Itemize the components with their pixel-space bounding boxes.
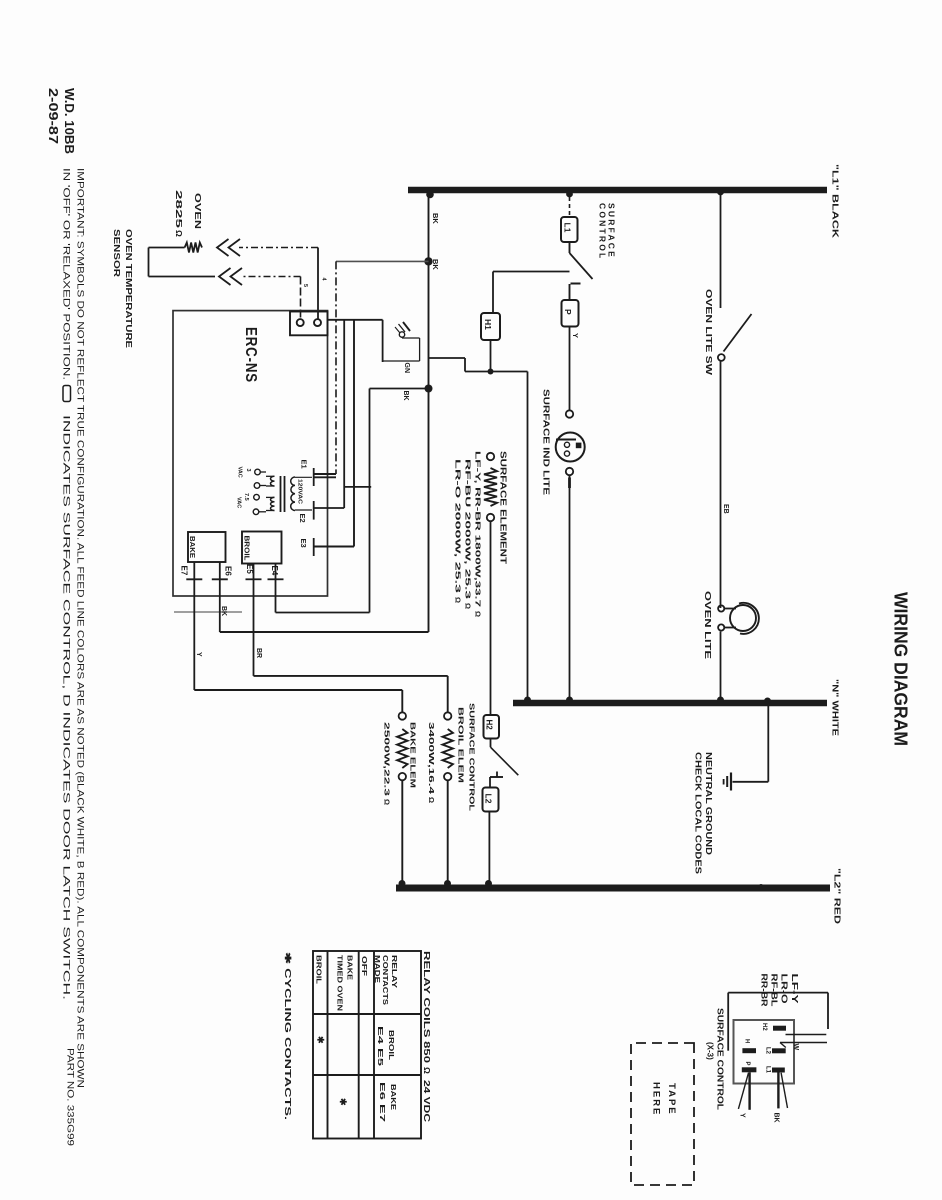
svg-text:5: 5: [302, 284, 308, 287]
svg-text:Y: Y: [739, 1113, 746, 1118]
svg-text:P: P: [744, 1062, 750, 1066]
wire BK staircase to E4 (drop): [276, 612, 370, 614]
wire element to H2: [490, 521, 492, 715]
svg-text:SURFACE CONTROL: SURFACE CONTROL: [468, 703, 477, 812]
wire E6 (BK) to BK drop: [219, 562, 221, 632]
contact box P (pilot): [562, 300, 579, 327]
svg-text:VAC: VAC: [236, 497, 242, 508]
svg-text:BROIL ELEM: BROIL ELEM: [457, 707, 466, 783]
wire E2 long wire: [343, 320, 345, 508]
wire junction riser: [465, 371, 528, 373]
wire riser to broil element: [447, 676, 449, 713]
resistor BROIL ELEM: [444, 712, 451, 719]
wire E7 (Y) to bake riser: [193, 562, 195, 690]
svg-text:2500W,22.3: 2500W,22.3: [383, 722, 392, 796]
transformer secondary coil 7.5VAC: [270, 497, 274, 510]
svg-text:VAC: VAC: [237, 467, 243, 478]
contact box H1: [481, 313, 500, 340]
svg-text:RF-BU 2000W, 25.3: RF-BU 2000W, 25.3: [464, 459, 473, 599]
svg-text:LR-O: LR-O: [780, 974, 790, 1005]
svg-text:Y: Y: [195, 652, 202, 657]
wire E4 to GN net: [275, 564, 277, 613]
svg-text:Ω: Ω: [464, 603, 473, 609]
svg-text:HERE: HERE: [651, 1082, 662, 1116]
svg-text:Ω: Ω: [474, 611, 483, 617]
svg-text:LF-Y, RR-BR 1800W,33.7: LF-Y, RR-BR 1800W,33.7: [474, 451, 483, 607]
lamp SURFACE IND LITE: [556, 433, 585, 462]
junction dot BK/E1 tap: [424, 257, 432, 265]
svg-text:(X-3): (X-3): [706, 1042, 715, 1060]
wire E2 riser to BK staircase: [344, 486, 371, 488]
junction dot below H1: [488, 369, 494, 375]
wire bake element to L2 rail: [401, 780, 403, 886]
wire BK from L1 rail: [428, 190, 430, 632]
svg-text:E4 E5: E4 E5: [376, 1026, 385, 1066]
resistor surface element: [487, 453, 494, 460]
wire L2 box to L2 rail: [488, 812, 490, 887]
svg-text:Ω: Ω: [454, 597, 463, 603]
table relay contacts outline: [313, 951, 421, 1139]
svg-text:"L2" RED: "L2" RED: [833, 868, 843, 924]
wire BK drop to E6 (broil relay): [220, 631, 429, 633]
svg-text:GN: GN: [403, 363, 410, 374]
svg-text:RF-BL: RF-BL: [769, 974, 779, 1007]
wire BK pair from L1 pin: [777, 1072, 779, 1108]
transformer core: [284, 476, 286, 512]
wire neutral ground tap: [767, 703, 769, 782]
terminal E5 tick: [246, 578, 262, 580]
svg-text:BK: BK: [431, 213, 440, 224]
svg-text:BK: BK: [220, 606, 227, 616]
svg-text:BK: BK: [773, 1113, 780, 1123]
wire H2 to switch pivot: [490, 739, 492, 748]
svg-text:"N" WHITE: "N" WHITE: [831, 679, 841, 736]
pin L2 (X-3): [772, 1048, 786, 1053]
wire L1 rail to oven lite switch: [720, 190, 722, 308]
connector sensor plug on ERC: [290, 312, 328, 336]
junction dot on L1 rail (oven lite branch): [717, 189, 724, 196]
wire dashed L1 rail to surface-control L1 contact: [569, 190, 571, 217]
svg-text:W.D. 10BB: W.D. 10BB: [62, 88, 76, 154]
svg-text:L1: L1: [765, 1066, 771, 1074]
wire N neutral rail (white): [513, 700, 827, 707]
sensor loop right leg: [149, 276, 216, 278]
svg-text:TIMED OVEN: TIMED OVEN: [336, 955, 345, 1011]
svg-text:H2: H2: [761, 1023, 767, 1031]
svg-text:RELAY COILS 850: RELAY COILS 850: [422, 951, 432, 1063]
svg-text:CHECK LOCAL CODES: CHECK LOCAL CODES: [694, 752, 704, 874]
module ERC-NS box: [173, 311, 328, 596]
svg-text:PART NO. 335G99: PART NO. 335G99: [65, 1048, 76, 1146]
wire L2 supply rail (red): [396, 885, 830, 892]
switch arm OVEN LITE SW (open): [724, 314, 752, 352]
svg-text:LF-Y: LF-Y: [790, 974, 800, 1005]
wire stub dark segment after lamp: [568, 478, 571, 489]
junction dot on L2 rail (broil): [444, 880, 451, 887]
svg-text:7.5: 7.5: [243, 493, 249, 501]
wire sensor right leg to ERC connector (dash-dot): [241, 276, 301, 278]
lamp OVEN LITE terminals: [718, 605, 724, 611]
wire switch to oven lite: [720, 361, 722, 608]
wire Y riser from E7: [194, 689, 402, 691]
svg-text:BAKE: BAKE: [188, 536, 195, 558]
svg-text:3400W,16.4: 3400W,16.4: [427, 722, 436, 795]
relay BAKE box: [188, 532, 226, 562]
junction dot on N rail (element return): [524, 697, 531, 704]
transformer secondary coil 3VAC: [270, 476, 274, 486]
switch contact tick: [571, 283, 581, 285]
transformer primary terminal E2: [313, 501, 315, 520]
svg-text:IMPORTANT: SYMBOLS DO NOT REFL: IMPORTANT: SYMBOLS DO NOT REFLECT TRUE C…: [75, 168, 86, 1088]
svg-text:E6: E6: [224, 566, 233, 576]
svg-text:E6 E7: E6 E7: [378, 1082, 387, 1122]
svg-text:SENSOR: SENSOR: [112, 229, 122, 277]
wire E3 to connector riser: [353, 320, 355, 547]
svg-text:BROIL: BROIL: [387, 1030, 396, 1061]
svg-text:BROIL: BROIL: [315, 955, 324, 985]
svg-text:✱: ✱: [316, 1036, 326, 1044]
svg-text:LR-O 2000W, 25.3: LR-O 2000W, 25.3: [454, 459, 463, 593]
svg-text:CONTROL: CONTROL: [598, 203, 608, 260]
contact box H2: [484, 715, 500, 739]
svg-text:BAKE: BAKE: [346, 955, 355, 980]
svg-text:OFF: OFF: [360, 956, 369, 977]
svg-text:Ω: Ω: [427, 797, 436, 803]
wire Y pair from P pin: [748, 1072, 750, 1110]
svg-text:EB: EB: [722, 504, 729, 514]
wire loop around X-3: [728, 992, 828, 994]
switch contact hook at L2: [490, 776, 503, 778]
svg-text:RR-BR: RR-BR: [759, 974, 769, 1007]
terminal E7 tick: [186, 578, 202, 580]
resistor oven temperature sensor (in loop left leg): [149, 247, 185, 249]
pin L1 (X-3): [772, 1068, 785, 1073]
terminal circle (ind lite right): [566, 468, 573, 475]
ground symbol (chassis) with circle: [403, 322, 410, 331]
svg-text:TAPE: TAPE: [666, 1083, 677, 1116]
transformer primary terminal E1: [313, 468, 315, 486]
svg-text:Ω: Ω: [383, 799, 392, 805]
svg-text:Y: Y: [571, 333, 580, 338]
wire BR riser from E5: [254, 675, 448, 677]
pin P (X-3): [742, 1067, 757, 1072]
svg-text:BR: BR: [255, 648, 262, 658]
svg-text:SURFACE IND LITE: SURFACE IND LITE: [542, 389, 551, 496]
wire E5 (BR) to broil riser: [253, 564, 255, 676]
connector SURFACE CONTROL X-3 box: [734, 1020, 795, 1084]
wire BK staircase to E4 (horizontal): [369, 389, 371, 613]
svg-text:P: P: [563, 309, 573, 315]
svg-text:WIRING DIAGRAM: WIRING DIAGRAM: [891, 592, 911, 746]
svg-text:2825: 2825: [174, 190, 184, 229]
svg-text:H2: H2: [485, 720, 494, 731]
svg-text:E4: E4: [270, 566, 279, 576]
symbol surface-control box glyph in note: [63, 386, 71, 402]
pin H: [742, 1048, 756, 1053]
svg-text:NEUTRAL GROUND: NEUTRAL GROUND: [704, 752, 714, 855]
relay BROIL box: [242, 532, 282, 564]
switch contact circle: [718, 354, 725, 361]
junction dot on N rail (ind lite): [566, 697, 573, 704]
wire drop surface control to H1: [493, 271, 570, 273]
svg-text:"L1" BLACK: "L1" BLACK: [831, 164, 841, 239]
terminal circle (ind lite left): [566, 410, 573, 417]
svg-text:OVEN LITE SW: OVEN LITE SW: [704, 289, 713, 376]
svg-text:2-09-87: 2-09-87: [46, 88, 60, 144]
svg-text:RELAY: RELAY: [390, 955, 399, 988]
svg-text:3: 3: [245, 469, 251, 472]
svg-text:✱: ✱: [338, 1098, 348, 1106]
wire riser to bake element: [401, 690, 403, 713]
svg-text:W: W: [792, 1044, 799, 1051]
junction dot on L1 rail (BK feed): [426, 191, 434, 199]
svg-text:SURFACE CONTROL: SURFACE CONTROL: [716, 1008, 725, 1110]
svg-text:ERC-NS: ERC-NS: [242, 327, 259, 383]
wire sensor left leg to ERC connector (dash-dot): [239, 247, 318, 249]
junction dot on L2 rail (surface control): [485, 880, 492, 887]
svg-text:OVEN LITE: OVEN LITE: [703, 591, 712, 660]
contact box L1 (surface control): [561, 217, 578, 242]
wire connector riser: [328, 319, 383, 321]
svg-text:INDICATES SURFACE CONTROL, D: INDICATES SURFACE CONTROL, D INDICATES D…: [61, 415, 72, 1000]
lamp OVEN LITE bulb: [730, 605, 756, 631]
svg-text:OVEN: OVEN: [193, 193, 203, 229]
junction dot on L1 rail (surface control branch): [566, 191, 573, 198]
svg-text:MADE: MADE: [373, 955, 382, 983]
wire broil element to L2 rail: [447, 780, 449, 886]
wire oven lite to N rail: [720, 632, 722, 704]
svg-text:Ω: Ω: [422, 1067, 432, 1074]
connector chevrons right leg: [231, 268, 243, 285]
pin H2: [773, 1026, 786, 1031]
svg-text:L2: L2: [765, 1047, 771, 1055]
svg-text:OVEN TEMPERATURE: OVEN TEMPERATURE: [124, 229, 134, 348]
sensor loop bottom: [148, 248, 150, 277]
junction dot on N rail (oven lite): [717, 697, 724, 704]
svg-text:BK: BK: [402, 391, 409, 401]
svg-text:E3: E3: [299, 539, 308, 548]
svg-text:BAKE ELEM: BAKE ELEM: [409, 722, 418, 788]
wire L1 box to switch pivot: [569, 242, 571, 253]
switch arm surface control H2-L2 (open): [491, 747, 519, 775]
svg-text:BAKE: BAKE: [389, 1084, 398, 1110]
ground symbol (earth): [730, 773, 732, 791]
wire faint scan line below relays: [174, 611, 242, 613]
wire GN net upper: [382, 320, 384, 362]
contact box L2: [483, 788, 499, 812]
svg-text:BROIL: BROIL: [243, 536, 250, 562]
terminal E6 tick: [212, 578, 228, 580]
wire H1 to junction: [490, 340, 492, 372]
box TAPE HERE (dashed): [631, 1043, 694, 1185]
junction dot on N rail (neutral ground): [764, 698, 771, 705]
svg-text:✱ CYCLING CONTACTS.: ✱ CYCLING CONTACTS.: [283, 952, 293, 1120]
svg-text:H: H: [744, 1039, 750, 1043]
junction dot BK/GN tap: [425, 385, 433, 393]
resistor BAKE ELEM: [399, 712, 406, 719]
svg-text:L2: L2: [484, 794, 494, 804]
switch arm surface control (open): [570, 253, 593, 279]
svg-text:H1: H1: [483, 319, 493, 330]
connector chevrons left leg: [229, 239, 241, 256]
svg-text:SURFACE ELEMENT: SURFACE ELEMENT: [499, 451, 509, 565]
stray junction dot on L2 rail: [758, 884, 764, 890]
transformer primary coil: [291, 477, 295, 511]
svg-text:L1: L1: [563, 223, 573, 233]
svg-text:E2: E2: [298, 514, 307, 523]
wire L1 supply rail (black): [408, 187, 827, 194]
wire element return to N rail: [527, 372, 529, 704]
svg-text:E1: E1: [300, 460, 309, 469]
wire W pair from H2 pin: [786, 1034, 827, 1036]
transformer secondary terminals: [266, 475, 275, 477]
wire E1 to BK tap (dash-dot): [336, 260, 429, 262]
junction dot on L2 rail (bake): [399, 880, 406, 887]
svg-text:4: 4: [321, 278, 327, 282]
terminal E4 tick: [268, 578, 284, 580]
svg-text:120VAC: 120VAC: [297, 479, 303, 504]
svg-text:E7: E7: [180, 566, 189, 576]
wire to P box: [569, 284, 571, 300]
svg-text:IN 'OFF' OR 'RELAXED' POSITION: IN 'OFF' OR 'RELAXED' POSITION.: [61, 168, 72, 380]
wire lamp to N rail: [569, 475, 571, 703]
wire P box to lamp: [569, 327, 571, 411]
svg-text:Ω: Ω: [174, 230, 184, 237]
wire BK dot drop: [370, 388, 429, 390]
terminal E3: [313, 538, 315, 556]
svg-text:24 VDC: 24 VDC: [422, 1080, 432, 1122]
wire element left to BK line: [464, 358, 466, 372]
